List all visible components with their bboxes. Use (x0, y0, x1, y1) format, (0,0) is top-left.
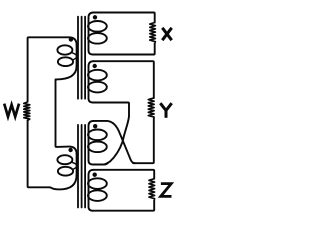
resistor Y (148, 98, 154, 119)
wire W top to T1 primary (28, 37, 69, 101)
polarity dot S4 (93, 173, 97, 177)
label Y (160, 103, 171, 118)
label Z (161, 184, 172, 197)
polarity dot T2 primary (68, 148, 72, 152)
wire T1 primary to T2 primary (56, 79, 70, 146)
label W (4, 104, 19, 117)
core T1 (78, 17, 85, 99)
Z loop bottom wire (93, 200, 154, 210)
wire resistor Y bottom to crossover (133, 119, 154, 164)
resistor Z (149, 179, 155, 201)
wire S2 bottom to crossover vertical (93, 103, 129, 117)
polarity dot S3 (93, 124, 97, 128)
crossover diagonal D1 (S3 top to Y return) (94, 121, 136, 163)
secondary coil S3 (88, 121, 108, 165)
transformer T1 primary coil (56, 37, 76, 79)
wire S2 top to resistor Y (94, 61, 154, 98)
transformer T2 primary coil (50, 147, 77, 190)
polarity dot S1 (93, 15, 97, 19)
secondary coil S2 (88, 61, 107, 102)
X loop bottom wire (93, 43, 155, 54)
polarity dot S2 (93, 64, 97, 68)
secondary coil S1 (88, 13, 107, 55)
secondary coil S4 (88, 170, 107, 211)
polarity dot T1 primary (69, 37, 73, 41)
resistor W (24, 102, 30, 121)
wire W bottom (28, 121, 50, 188)
X loop wires (94, 13, 155, 23)
label X (162, 28, 171, 40)
resistor X (150, 23, 156, 44)
crossover diagonal D2 (S2 return to S3 bottom) (105, 116, 129, 164)
core T2 (78, 125, 85, 208)
wire S4 top to resistor Z (94, 170, 155, 179)
